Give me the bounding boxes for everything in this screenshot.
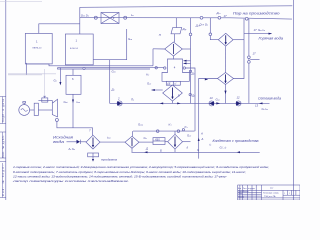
slanted vent box [171, 28, 182, 34]
heat exchanger diamond 7 blowdown cooler [86, 135, 100, 149]
vapor cooler diamond [165, 42, 183, 56]
svg-text:17: 17 [254, 28, 258, 32]
svg-text:Δ: Δ [201, 137, 204, 141]
wire vapor left drop [152, 49, 154, 66]
svg-text:Gк', tк: Gк', tк [220, 145, 227, 149]
svg-text:Дд+: Дд+ [195, 23, 201, 27]
margin stamp text left [1, 99, 5, 197]
wire to HVO box [139, 141, 153, 143]
nozzle left [164, 67, 166, 69]
wire P1 to P2 [225, 46, 227, 72]
svg-text:Н.контр: Н.контр [238, 197, 244, 199]
junction circle left [155, 67, 157, 69]
wire into diamond8 top [131, 131, 133, 136]
wire makeup drop [248, 19, 250, 104]
svg-text:17: 17 [253, 52, 257, 56]
svg-text:ТЭЦ пгт.-ТА: ТЭЦ пгт.-ТА [264, 195, 276, 198]
wire branch to heater P1 [210, 18, 218, 40]
wire condensate return line [132, 151, 260, 153]
wire P2 down to network line [225, 85, 227, 104]
svg-text:1: 1 [284, 193, 285, 195]
wire circles line [133, 130, 195, 132]
svg-text:дог: дог [270, 187, 273, 190]
valve circle V8 [189, 33, 192, 36]
heat exchanger diamond 9 [168, 134, 183, 149]
heat exchanger diamond 5 under deaerator [163, 85, 183, 103]
svg-text:А: А [200, 132, 203, 136]
valve circle on P1 branch [209, 33, 212, 36]
title block [238, 185, 300, 200]
wire feed drop to pump [109, 60, 111, 104]
svg-text:13: 13 [210, 96, 214, 100]
labels small [33, 11, 284, 162]
wire box6 top [72, 69, 74, 75]
svg-text:ХВО: ХВО [155, 139, 160, 142]
arrow condensate 1 [144, 151, 148, 153]
wire diamond8 bottom [131, 148, 133, 152]
wire deaerator right nozzle [186, 68, 196, 131]
wire raw water chain [100, 141, 125, 143]
wire main steam header top [80, 6, 292, 8]
svg-text:1: 1 [289, 193, 290, 195]
valve circle V3 [200, 16, 203, 19]
valve circle V7 [182, 129, 184, 131]
nozzle right [183, 67, 185, 69]
network pump 12 [236, 101, 241, 106]
valve circle V5b [245, 17, 248, 20]
wire hot water out arrow [244, 33, 272, 35]
svg-text:6-сетевой подогреватель; 7-о: 6-сетевой подогреватель; 7-охладитель пр… [13, 170, 246, 174]
vapor line right [182, 48, 190, 50]
svg-text:лятор температуры системы т: лятор температуры системы теплоснабжения… [11, 179, 129, 183]
wire P1 right to riser [233, 39, 244, 41]
svg-text:ΔЕ: ΔЕ [166, 84, 171, 86]
turbine casing [38, 99, 52, 101]
turbine HP rect [34, 103, 38, 115]
gate valve knots [248, 56, 260, 63]
heater diamond P1 [218, 33, 233, 46]
exhaust circle [55, 118, 58, 121]
wire reduced steam line [80, 18, 292, 19]
valve circle V6 [177, 130, 180, 133]
steam in arrows [184, 60, 191, 62]
arrow on P2 drain [205, 78, 208, 80]
svg-text:17: 17 [224, 14, 228, 18]
wire diamond9 bottom [174, 149, 176, 152]
valve circle V10 [189, 93, 191, 95]
arrow network return [259, 102, 263, 104]
wire network water main line [110, 102, 270, 104]
svg-text:КВГМ-10: КВГМ-10 [33, 48, 43, 50]
wire drain P2 to condensate [199, 79, 218, 159]
svg-text:Пар на производство: Пар на производство [233, 11, 280, 15]
box 6 cooler [66, 75, 81, 94]
valve circle V4 [218, 16, 221, 19]
wire double header a [58, 67, 165, 69]
boiler hot-water box K2 [25, 33, 52, 64]
svg-text:Сетевая вода: Сетевая вода [258, 97, 281, 101]
svg-text:2: 2 [117, 97, 120, 101]
wire steam riser from boiler K1 top [79, 7, 81, 34]
caption legend lines [11, 165, 269, 183]
blowdown box under diamond7 [88, 153, 99, 162]
vapor line left [153, 48, 165, 50]
svg-text:13: 13 [255, 104, 259, 108]
junction circle header [83, 67, 85, 69]
wire box6 drop arrow [72, 100, 74, 104]
wire box6 down to raw water line [72, 94, 74, 128]
svg-text:Dпп Dо: Dпп Dо [81, 13, 89, 17]
margin ticks [0, 97, 6, 198]
wire double header b [58, 68, 151, 69]
svg-text:вода: вода [53, 140, 64, 144]
svg-text:Иванов: Иванов [243, 191, 249, 193]
frame left border [5, 0, 7, 200]
wire faint recirculation [8, 74, 56, 75]
wire diamond9 right [183, 141, 191, 143]
svg-text:Пров.: Пров. [238, 193, 243, 195]
svg-text:Горячая вода: Горячая вода [259, 37, 284, 41]
frame right border [292, 0, 294, 200]
svg-text:12: 12 [237, 95, 241, 99]
wire exhaust to blowdown cooler [57, 121, 93, 135]
wire HVO to diamond 9 [165, 141, 168, 143]
wire Gv drop with arrow [59, 68, 61, 84]
ROU reducing unit 3 [101, 13, 119, 24]
wire diamond5 left drain arrow [151, 89, 162, 91]
wire lower header 1 [26, 64, 153, 66]
frame top faint remnant [0, 1, 42, 3]
network pump 13 [209, 101, 214, 106]
generator circle [19, 105, 30, 116]
turbine generator group [19, 69, 59, 121]
svg-text:Dп+ Dк: Dп+ Dк [200, 23, 208, 27]
boiler steam box K1 [65, 34, 93, 65]
valve circle V9 [189, 70, 191, 72]
wire P2 up to network supply riser [234, 19, 245, 79]
arrow on line left [160, 102, 163, 104]
shaft [30, 109, 35, 111]
deaerator bottom cell [166, 81, 180, 85]
svg-text:Б: Б [160, 149, 162, 153]
wire feedwater drop to boiler K1 [93, 29, 127, 60]
svg-text:Тепловая схема: Тепловая схема [263, 192, 279, 194]
svg-text:Конденсат с производства: Конденсат с производства [213, 139, 259, 143]
valve circle V5 [156, 130, 159, 133]
deaerator column and tank outline [162, 59, 189, 81]
turbine valve box [42, 98, 48, 102]
wire line under boxes [25, 63, 27, 75]
heater diamond P2 [218, 73, 234, 85]
arrow on line right [177, 102, 180, 104]
svg-text:Подп. и дата: Подп. и дата [1, 99, 5, 123]
svg-text:Инв. № дубл.: Инв. № дубл. [1, 135, 5, 158]
valve circle V1 [94, 16, 97, 19]
wire diamond9 top [174, 131, 176, 134]
turbine exhaust trapezoid [52, 99, 57, 117]
svg-text:Е-50-14: Е-50-14 [70, 48, 79, 50]
arrow condensate 2 [237, 151, 241, 153]
svg-text:12-насос сетевой воды; 13-в: 12-насос сетевой воды; 13-водоподогреват… [13, 175, 227, 179]
arrow up on condensate riser [198, 138, 200, 141]
svg-text:Д: Д [145, 147, 148, 151]
svg-text:1-паровые котлы; 2-насос пи: 1-паровые котлы; 2-насос питательный; 3-… [13, 165, 269, 169]
steam supply to turbine faint [44, 69, 46, 96]
arrow after pump 13 [216, 102, 220, 104]
svg-text:продувка: продувка [101, 159, 118, 162]
wire vertical steam to deaerator [190, 18, 192, 104]
valve circle V2 [124, 16, 127, 19]
wire vapor to column [173, 56, 175, 59]
arrow Gv drop [59, 82, 61, 85]
check valve raw water [67, 140, 87, 144]
svg-text:Изм: Изм [238, 188, 241, 190]
svg-text:Лист: Лист [243, 188, 247, 190]
feed pump 2 [117, 101, 122, 106]
wire branch to hot-water boiler top [39, 24, 80, 34]
HVO box [153, 138, 165, 145]
deaerator unit 4 [153, 18, 191, 86]
heat exchanger diamond 8 [125, 136, 139, 148]
